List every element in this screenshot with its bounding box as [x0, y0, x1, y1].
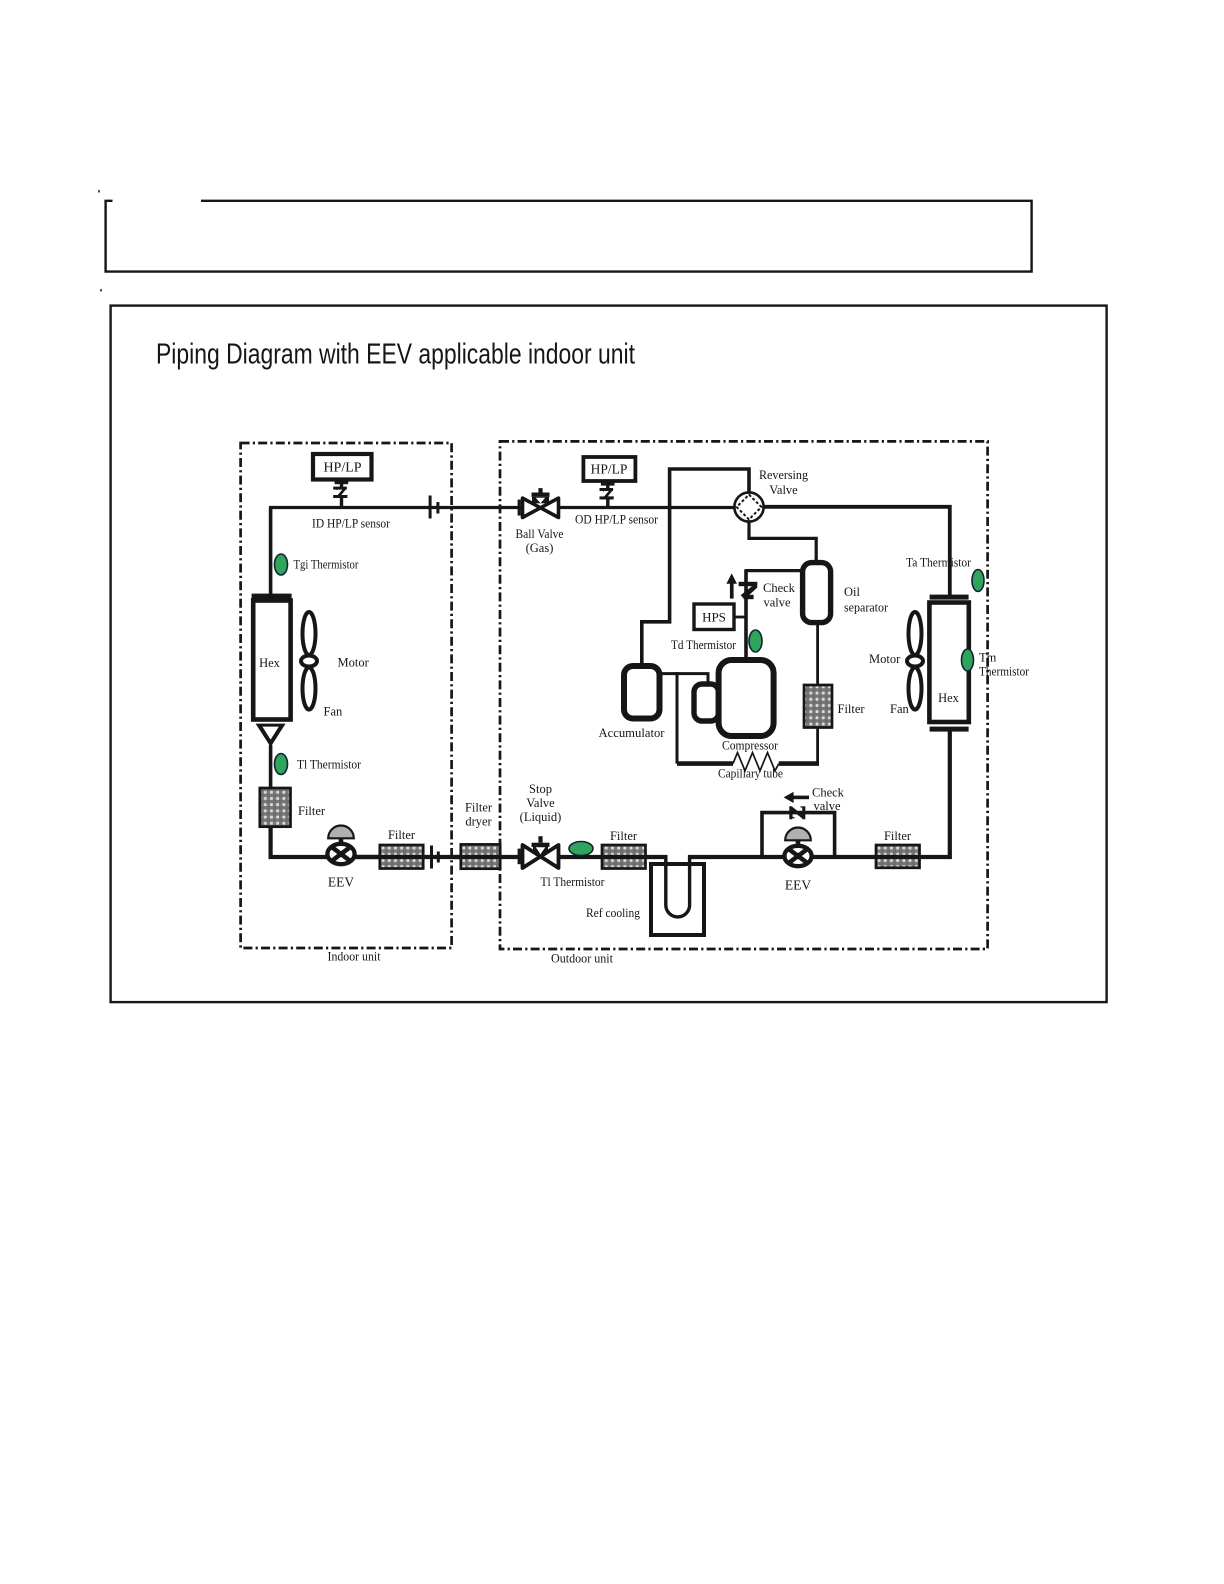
outdoor hex bottom header bar [930, 727, 969, 732]
indoor HP/LP sensor box [313, 454, 372, 480]
empty header box with gap in top border [106, 201, 1032, 272]
filter (oil return) [804, 685, 832, 728]
capillary tube zigzag [733, 753, 779, 771]
svg-text:Motor: Motor [869, 652, 901, 666]
svg-text:Hex: Hex [938, 691, 960, 705]
flow arrow (left) [790, 796, 809, 800]
filter dryer box [461, 844, 500, 868]
ref cooling box [651, 864, 704, 935]
indoor filter (vertical) [260, 788, 291, 827]
ball valve (gas) [523, 488, 559, 517]
compressor body [719, 660, 774, 736]
distributor triangle under indoor hex [256, 724, 286, 747]
svg-text:OD HP/LP sensor: OD HP/LP sensor [575, 513, 659, 527]
svg-text:HP/LP: HP/LP [323, 461, 361, 476]
svg-text:Tm: Tm [979, 651, 997, 665]
pipe joint (flare) on liquid line [430, 846, 433, 869]
svg-text:Fan: Fan [890, 702, 910, 716]
svg-text:(Liquid): (Liquid) [520, 810, 562, 824]
Tm thermistor [962, 649, 974, 671]
check valve bypass loop (outdoor) [762, 813, 835, 857]
outdoor HP/LP sensor symbol [606, 481, 609, 489]
oil separator [803, 563, 831, 623]
HPS box [694, 604, 734, 630]
svg-text:Stop: Stop [529, 782, 552, 796]
svg-text:Ta Thermistor: Ta Thermistor [906, 556, 972, 570]
svg-text:HPS: HPS [702, 610, 726, 625]
wire over filter [601, 855, 646, 859]
filter (outdoor bottom right) [876, 845, 920, 868]
svg-text:EEV: EEV [785, 878, 811, 893]
svg-text:Piping Diagram with EEV applic: Piping Diagram with EEV applicable indoo… [156, 339, 635, 371]
wire: liquid pipe from distributor to filter [269, 745, 273, 789]
outdoor HP/LP sensor box [583, 457, 635, 481]
svg-text:Motor: Motor [338, 656, 370, 670]
svg-text:Oil: Oil [844, 585, 861, 599]
filter (indoor bottom, horizontal) [380, 845, 423, 869]
wire: indoor gas pipe vertical to hex [269, 508, 273, 597]
wire: accumulator outlet to compressor [659, 674, 708, 687]
stop valve (liquid) [523, 836, 559, 868]
svg-text:Filter: Filter [884, 829, 912, 843]
joint bar before ball valve [518, 500, 521, 516]
svg-text:Z: Z [788, 805, 809, 820]
svg-text:Check: Check [763, 581, 796, 595]
wire: liquid pipe stop valve to ref cooling [556, 855, 667, 859]
outdoor hex top header bar [930, 595, 969, 600]
svg-text:Z: Z [601, 486, 615, 503]
svg-text:Capillary tube: Capillary tube [718, 767, 783, 781]
outdoor hex body [929, 603, 968, 723]
svg-text:Indoor unit: Indoor unit [328, 949, 381, 964]
svg-text:Tl Thermistor: Tl Thermistor [541, 875, 606, 889]
wire: suction branch down to capillary [676, 672, 679, 764]
Tgi thermistor [275, 554, 288, 575]
svg-text:(Gas): (Gas) [526, 541, 554, 555]
reversing valve [734, 492, 763, 521]
Td thermistor [749, 630, 762, 652]
indoor HP/LP sensor symbol (Z with ticks) [340, 480, 343, 489]
svg-text:Compressor: Compressor [722, 739, 779, 753]
indoor unit dashed enclosure [241, 443, 452, 948]
svg-text:dryer: dryer [465, 815, 492, 829]
reversing valve suction line over the top [642, 469, 749, 667]
svg-text:Valve: Valve [526, 796, 555, 810]
wire: oil return line down from separator [816, 622, 819, 765]
indoor hex body [253, 601, 290, 720]
svg-text:Outdoor unit: Outdoor unit [551, 951, 613, 966]
wire: gas pipe right of reversing valve with corner down to outdoor hex [763, 507, 950, 597]
filter (outdoor liquid line) [602, 845, 646, 869]
svg-text:separator: separator [844, 601, 889, 615]
EEV (outdoor) [784, 828, 811, 867]
svg-text:Check: Check [812, 786, 845, 800]
svg-text:Tgi Thermistor: Tgi Thermistor [294, 558, 360, 572]
Tl thermistor (outdoor liquid line) [569, 842, 593, 856]
Tl thermistor (indoor) [275, 754, 288, 775]
wire: main gas pipe horizontal (indoor to reversing valve) [269, 506, 735, 509]
wire: pipe filter down and corner right [271, 826, 380, 857]
svg-text:Filter: Filter [465, 801, 493, 815]
svg-text:valve: valve [764, 596, 792, 610]
wire over filter [379, 855, 424, 859]
indoor fan propeller [301, 612, 317, 710]
reversing valve discharge connection to oil separator [749, 520, 816, 563]
svg-text:Filter: Filter [298, 804, 326, 818]
svg-text:Reversing: Reversing [759, 468, 809, 482]
svg-text:EEV: EEV [328, 875, 354, 890]
svg-text:Hex: Hex [259, 656, 281, 670]
svg-text:Tl Thermistor: Tl Thermistor [297, 758, 362, 772]
svg-text:Thermistor: Thermistor [979, 665, 1030, 679]
svg-text:Accumulator: Accumulator [599, 726, 666, 740]
ref cooling U tube [666, 855, 690, 917]
check valve (outdoor bypass) [789, 806, 792, 819]
svg-text:Filter: Filter [388, 828, 416, 842]
outdoor unit dashed enclosure [500, 441, 988, 949]
svg-text:Ref cooling: Ref cooling [586, 906, 641, 920]
wire: discharge to oil separator [745, 569, 804, 572]
wire: capillary to oil return [779, 761, 819, 766]
stray mark top-left [98, 190, 100, 193]
indoor hex top header bar [252, 594, 292, 599]
wire: compressor discharge riser [744, 570, 748, 662]
EEV (indoor) [327, 826, 354, 865]
flow arrow (up) [730, 581, 734, 599]
main diagram border box [111, 306, 1107, 1003]
svg-text:Td Thermistor: Td Thermistor [671, 638, 737, 652]
svg-text:Fan: Fan [324, 705, 344, 719]
wire HPS to discharge line [734, 616, 746, 619]
wire: liquid pipe through filter dryer to stop valve [452, 855, 524, 859]
wire: capillary feed thick segment [677, 761, 733, 766]
svg-text:ID HP/LP sensor: ID HP/LP sensor [312, 517, 391, 531]
wire: indoor bottom liquid pipe [326, 855, 462, 859]
joint bar before stop valve [518, 849, 521, 865]
compressor suction pot [694, 684, 719, 721]
check valve (discharge, vertical) [739, 582, 758, 586]
svg-text:Valve: Valve [769, 483, 798, 497]
wire over filter and corner up to outdoor hex [875, 731, 950, 857]
wire: pipe from ref cooling to EEV bypass [688, 855, 877, 859]
outdoor fan propeller [907, 612, 923, 710]
svg-text:HP/LP: HP/LP [591, 462, 628, 477]
svg-text:Filter: Filter [838, 702, 866, 716]
svg-text:Ball Valve: Ball Valve [516, 527, 564, 541]
accumulator [624, 666, 660, 719]
pipe joint (flare) on gas line [429, 496, 432, 519]
stray mark left [100, 289, 102, 292]
svg-text:Z: Z [335, 485, 349, 502]
svg-text:valve: valve [814, 799, 842, 813]
svg-text:Filter: Filter [610, 829, 638, 843]
